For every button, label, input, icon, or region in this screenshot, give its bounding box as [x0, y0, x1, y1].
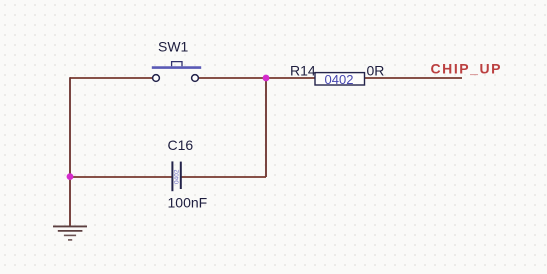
svg-text:C16: C16 — [168, 137, 194, 153]
ground bar 2 — [58, 230, 83, 232]
ground bar 4 — [68, 239, 72, 241]
wire: C16 right plate to right vertical — [181, 176, 266, 178]
svg-text:CHIP_UP: CHIP_UP — [431, 61, 503, 77]
svg-text:100nF: 100nF — [168, 195, 208, 211]
SW1 pin 2 contact circle — [192, 75, 199, 82]
wire: left vertical (corner down to ground) — [69, 77, 71, 226]
svg-text:0402: 0402 — [325, 72, 354, 87]
R14 body rectangle — [315, 73, 365, 85]
ground symbol — [53, 226, 87, 240]
svg-text:R14: R14 — [290, 63, 316, 79]
junction dot at SW1 output node — [263, 75, 270, 82]
svg-text:0402: 0402 — [174, 169, 181, 184]
wire: top horizontal left segment (corner to SW1 pin 1) — [70, 77, 153, 79]
wire: ground node to C16 left plate — [70, 176, 172, 178]
wire: SW1 pin 2 to junction and on through R14 to net label — [199, 77, 463, 79]
SW1 pin 1 contact circle — [153, 75, 160, 82]
junction dot at ground/capacitor node — [67, 173, 74, 180]
ground bar 1 — [53, 225, 87, 227]
SW1 button bump — [172, 62, 182, 67]
svg-text:SW1: SW1 — [158, 39, 189, 55]
wire: right vertical (junction down to capacitor level) — [265, 78, 267, 177]
C16 right plate — [180, 162, 182, 189]
capacitor C16 — [168, 137, 208, 211]
switch SW1 — [152, 39, 201, 82]
ground bar 3 — [64, 234, 76, 236]
resistor R14 — [290, 63, 384, 87]
SW1 actuator bar — [152, 66, 201, 69]
C16 left plate — [171, 161, 173, 191]
svg-text:0R: 0R — [367, 63, 385, 79]
